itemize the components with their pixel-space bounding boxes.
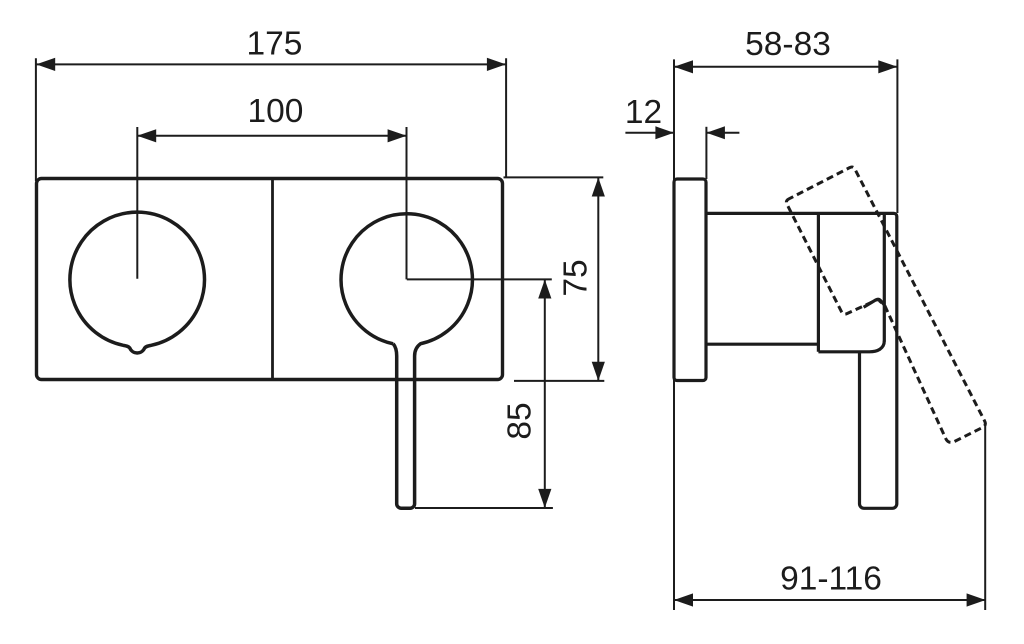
side view: body/hub divider [817, 213, 820, 351]
arrowhead 175 right [487, 58, 506, 71]
arrowhead 12 left (points right) [655, 126, 674, 139]
arrowhead 175 left [36, 58, 55, 71]
arrowhead 75 bottom [592, 362, 605, 381]
arrowhead 75 top [592, 178, 605, 197]
dim line 12 right leader [707, 132, 740, 134]
ext line 12 right [705, 127, 707, 179]
arrowhead 85 bottom [538, 489, 551, 508]
arrowhead 91-116 right [967, 593, 986, 606]
dim line 91-116 [674, 599, 985, 601]
ext line 58-83 right [896, 59, 898, 213]
dim line 85 [544, 280, 546, 508]
ext line 175 left [35, 58, 37, 181]
ext line 100 left / circle centre [136, 127, 138, 279]
arrowhead 85 top [538, 280, 551, 299]
arrowhead 100 left [137, 129, 156, 142]
svg-text:12: 12 [625, 94, 662, 131]
arrowhead 91-116 left [674, 593, 693, 606]
dim line 175 [36, 63, 506, 65]
ext line 75 bottom [514, 380, 604, 382]
dim line 58-83 [674, 66, 897, 68]
svg-text:100: 100 [248, 93, 304, 130]
side view: body + lever blade outer outline [708, 213, 897, 508]
side view: wall plate bar [674, 179, 706, 381]
front view: wall plate outline [37, 179, 503, 380]
side view: lever tail bump (solid) [864, 299, 885, 307]
svg-text:58-83: 58-83 [745, 26, 831, 63]
side view: body bottom edge [708, 343, 818, 346]
dim line 12 left leader [625, 132, 673, 134]
svg-text:175: 175 [247, 26, 303, 63]
front view: plate centre divider [271, 179, 274, 380]
arrowhead 58-83 right [878, 60, 897, 73]
ext line 85 top (from circle centre) [407, 278, 552, 280]
ext line 75 top [504, 176, 604, 178]
ext line 58-83 left (full height) [673, 59, 675, 610]
svg-text:85: 85 [502, 402, 539, 439]
svg-text:91-116: 91-116 [780, 561, 882, 598]
ext line 175 right [505, 58, 507, 177]
front view: right escutcheon circle with lever stem [341, 214, 472, 508]
arrowhead 100 right [388, 129, 407, 142]
side view: neck left edge [883, 215, 886, 342]
dim line 75 [597, 178, 599, 380]
side view: hub bottom edge with fillet into neck [818, 341, 884, 352]
arrowhead 58-83 left [674, 60, 693, 73]
ext line 91-116 right [984, 426, 986, 611]
front view: left escutcheon circle with spout dimple [70, 212, 205, 353]
svg-text:75: 75 [558, 259, 595, 296]
ext line 85 bottom [415, 507, 553, 509]
side view: raised handle (dashed alternate position) [786, 167, 985, 442]
dim line 100 [137, 135, 406, 137]
ext line 100 right / circle centre [406, 127, 408, 279]
thin measurement lines [36, 58, 985, 610]
arrowhead 12 right (points left) [706, 126, 725, 139]
